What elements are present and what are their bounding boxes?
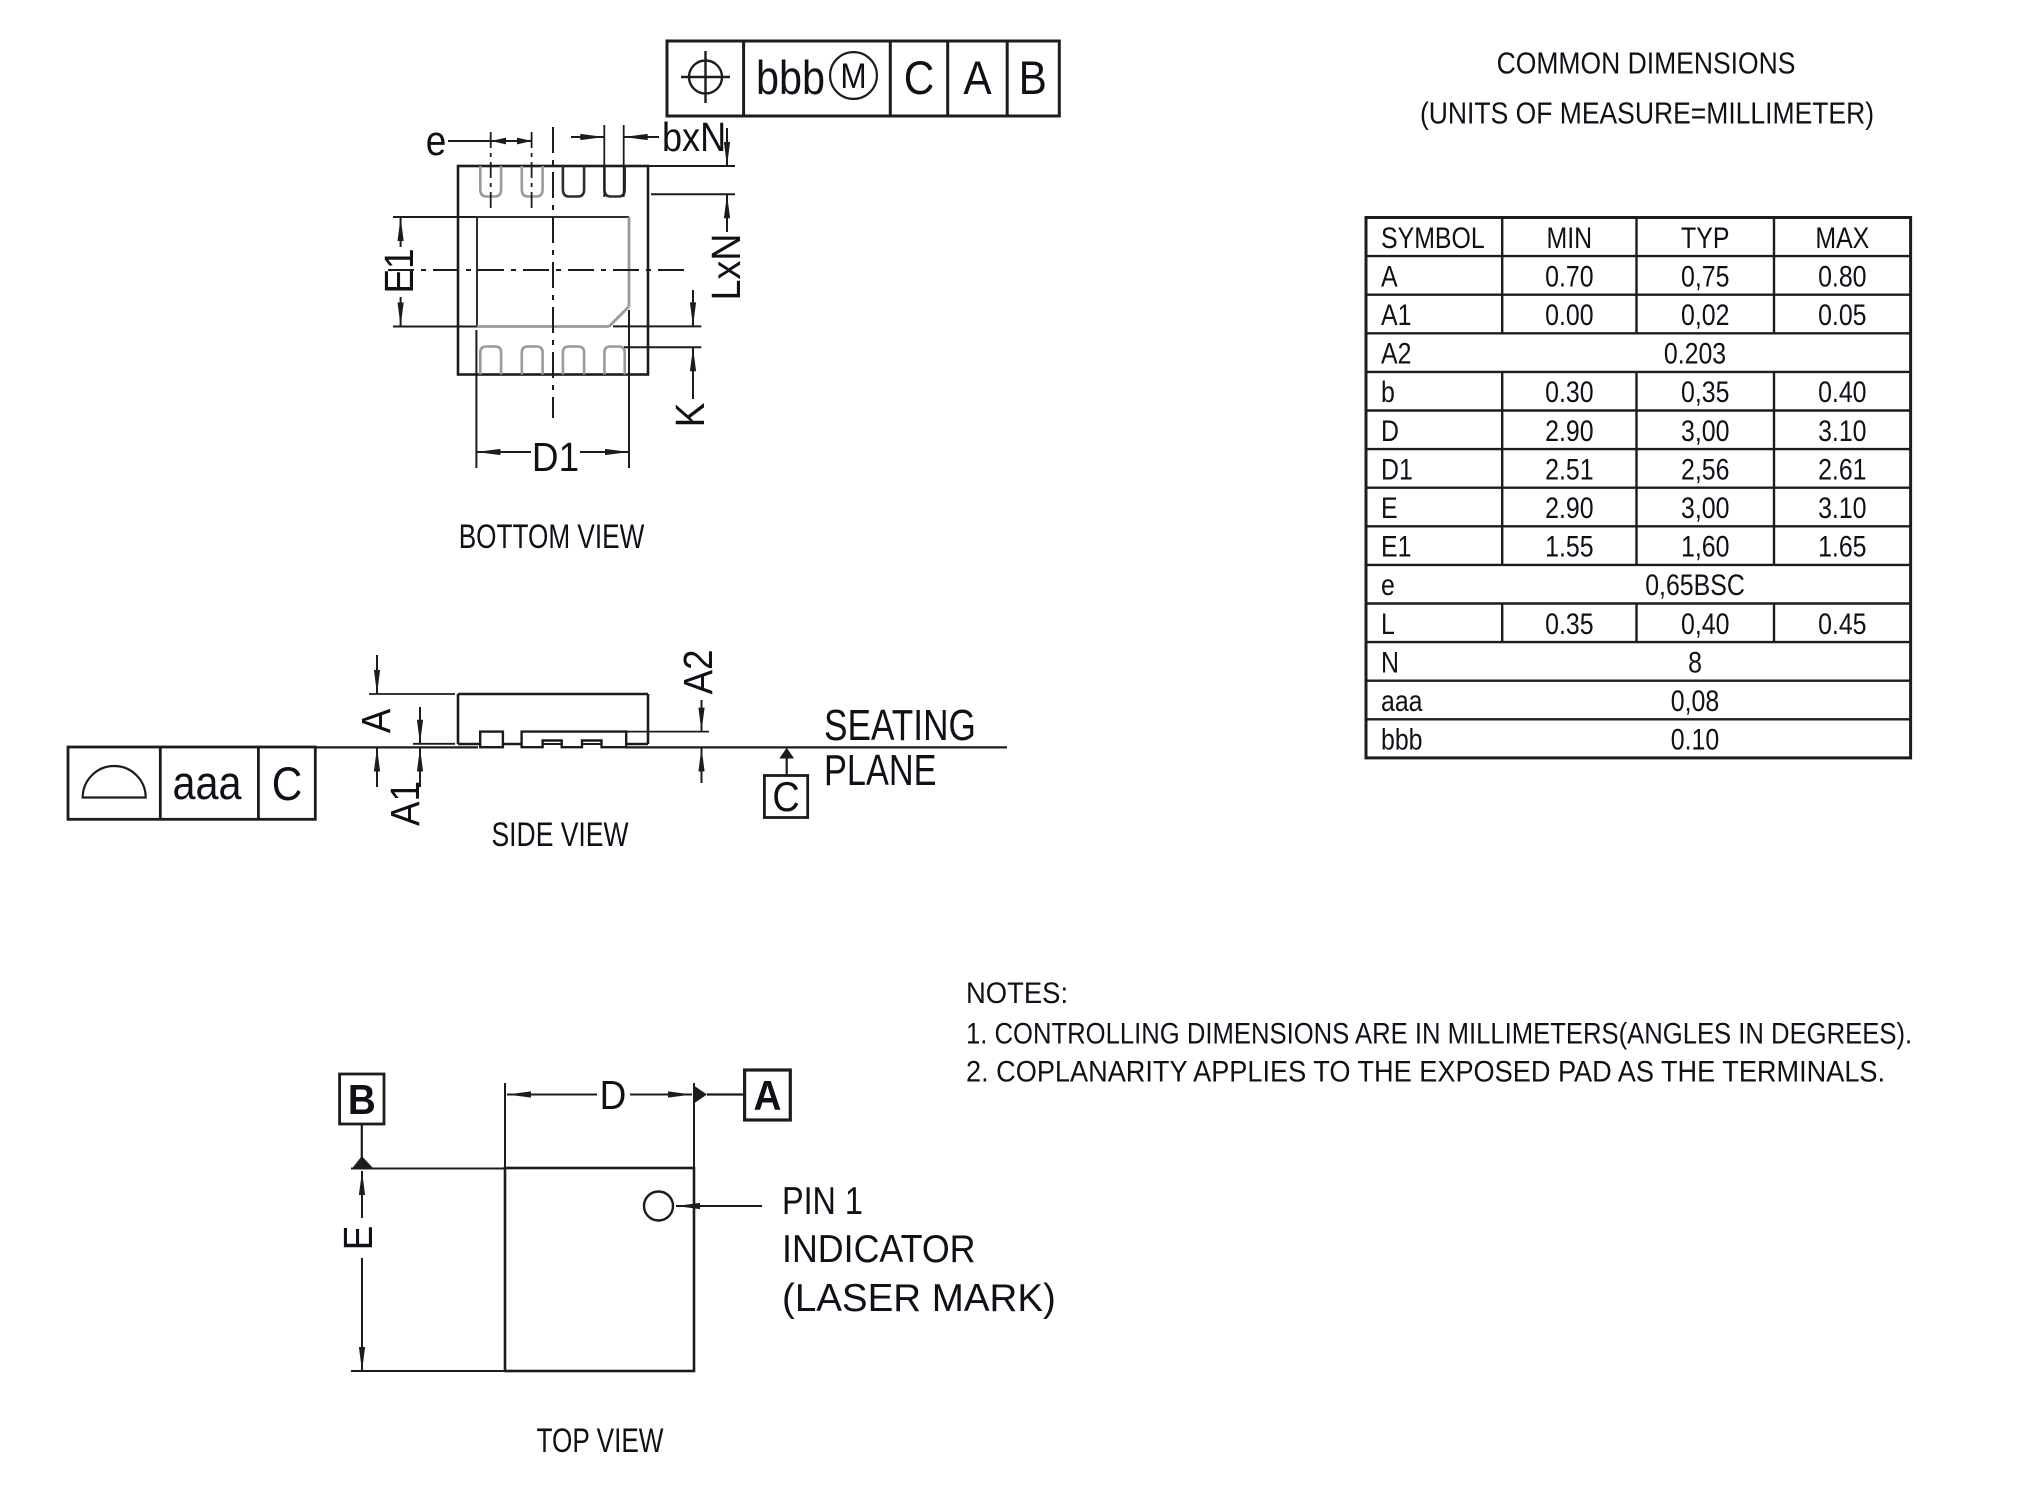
svg-text:COMMON DIMENSIONS: COMMON DIMENSIONS (1497, 47, 1796, 81)
svg-text:BOTTOM VIEW: BOTTOM VIEW (459, 519, 645, 556)
svg-text:1,60: 1,60 (1681, 529, 1729, 563)
svg-text:8: 8 (1688, 645, 1702, 679)
dimension D1 (475, 330, 477, 468)
svg-text:3.10: 3.10 (1818, 491, 1866, 525)
svg-text:1.55: 1.55 (1545, 529, 1593, 563)
profile symbol semicircle (83, 766, 146, 798)
top view package outline (505, 1168, 694, 1371)
bottom view package outline (458, 166, 648, 375)
svg-text:2. COPLANARITY APPLIES TO THE: 2. COPLANARITY APPLIES TO THE EXPOSED PA… (966, 1055, 1885, 1088)
svg-text:0.10: 0.10 (1671, 722, 1719, 756)
svg-text:INDICATOR: INDICATOR (782, 1227, 976, 1270)
dimension A2 (626, 731, 709, 733)
svg-text:LxN: LxN (704, 233, 750, 300)
svg-text:3,00: 3,00 (1681, 414, 1729, 448)
svg-text:b: b (1381, 375, 1395, 409)
dimension A (369, 693, 455, 695)
svg-text:1.65: 1.65 (1818, 529, 1866, 563)
position symbol (689, 61, 722, 94)
bottom view bottom pad 3 (563, 347, 584, 375)
svg-text:TOP VIEW: TOP VIEW (537, 1423, 664, 1460)
svg-text:A2: A2 (676, 649, 721, 694)
svg-text:PIN 1: PIN 1 (782, 1179, 863, 1222)
body bottom line visible through notches (543, 743, 562, 745)
svg-text:0.45: 0.45 (1818, 607, 1866, 641)
svg-text:B: B (348, 1075, 376, 1123)
dimension LxN (726, 128, 728, 166)
svg-text:C: C (904, 53, 935, 105)
svg-text:E1: E1 (1381, 529, 1411, 563)
dimension D (504, 1083, 506, 1168)
svg-text:E1: E1 (377, 248, 422, 293)
svg-text:(UNITS OF MEASURE=MILLIMETER): (UNITS OF MEASURE=MILLIMETER) (1420, 97, 1874, 131)
svg-text:A: A (1381, 259, 1398, 293)
pin 1 indicator circle (644, 1192, 673, 1221)
svg-text:PLANE: PLANE (824, 746, 936, 795)
common dimensions table (1366, 218, 1911, 758)
svg-text:e: e (426, 118, 447, 165)
svg-text:0.35: 0.35 (1545, 607, 1593, 641)
datum B box, leader and triangle (340, 1074, 384, 1124)
svg-text:D: D (600, 1073, 627, 1118)
svg-text:N: N (1381, 645, 1399, 679)
svg-text:A: A (963, 53, 991, 105)
svg-text:aaa: aaa (173, 758, 242, 810)
svg-text:A2: A2 (1381, 336, 1411, 370)
svg-text:0.00: 0.00 (1545, 298, 1593, 332)
dimension E1 (393, 216, 477, 218)
bottom view top pad 2 (522, 166, 543, 197)
svg-text:E: E (1381, 491, 1398, 525)
svg-text:0.70: 0.70 (1545, 259, 1593, 293)
svg-text:3.10: 3.10 (1818, 414, 1866, 448)
svg-text:D1: D1 (532, 435, 579, 480)
svg-text:SIDE VIEW: SIDE VIEW (491, 816, 628, 854)
svg-text:D: D (1381, 414, 1399, 448)
svg-text:M: M (840, 58, 866, 97)
surface profile control frame aaa C (68, 747, 315, 819)
svg-text:L: L (1381, 607, 1395, 641)
vertical centerline (552, 127, 554, 418)
svg-text:0.05: 0.05 (1818, 298, 1866, 332)
svg-text:0,35: 0,35 (1681, 375, 1729, 409)
LxN lower extension line (651, 193, 735, 195)
svg-text:0.80: 0.80 (1818, 259, 1866, 293)
svg-text:bxN: bxN (662, 115, 726, 161)
svg-text:C: C (272, 759, 303, 811)
svg-text:K: K (668, 403, 713, 428)
svg-text:D1: D1 (1381, 452, 1413, 486)
svg-text:C: C (772, 774, 799, 820)
dimension A1 (413, 743, 455, 745)
svg-text:A1: A1 (1381, 298, 1411, 332)
datum A triangle, leader and box (695, 1086, 708, 1103)
svg-text:0.30: 0.30 (1545, 375, 1593, 409)
svg-text:0,40: 0,40 (1681, 607, 1729, 641)
svg-text:SYMBOL: SYMBOL (1381, 221, 1485, 255)
side view pad 1 (480, 732, 503, 748)
svg-text:2.61: 2.61 (1818, 452, 1866, 486)
side view exposed pad bar with notches (522, 732, 627, 748)
bottom view bottom pad 2 (522, 347, 543, 375)
svg-text:MAX: MAX (1815, 221, 1869, 255)
svg-text:0,65BSC: 0,65BSC (1645, 568, 1745, 602)
svg-text:0,75: 0,75 (1681, 259, 1729, 293)
svg-text:2,56: 2,56 (1681, 452, 1729, 486)
svg-text:A1: A1 (383, 781, 428, 826)
svg-text:3,00: 3,00 (1681, 491, 1729, 525)
bottom view bottom pad 4 (604, 347, 624, 375)
svg-text:0,02: 0,02 (1681, 298, 1729, 332)
svg-text:A: A (354, 709, 399, 734)
svg-text:aaa: aaa (1381, 684, 1423, 718)
seating plane line (316, 746, 478, 748)
dimension E (351, 1168, 505, 1170)
svg-text:0.40: 0.40 (1818, 375, 1866, 409)
exposed pad outline (477, 216, 629, 218)
svg-text:E: E (336, 1226, 381, 1251)
svg-text:1. CONTROLLING DIMENSIONS ARE: 1. CONTROLLING DIMENSIONS ARE IN MILLIME… (966, 1017, 1912, 1050)
bottom view top pad 1 (480, 166, 501, 197)
svg-text:A: A (754, 1071, 782, 1119)
svg-text:e: e (1381, 568, 1395, 602)
svg-text:SEATING: SEATING (824, 701, 976, 750)
bottom view top pad 3 (563, 166, 584, 197)
svg-text:2.90: 2.90 (1545, 414, 1593, 448)
side view body outline (458, 693, 648, 696)
modifier M circle (830, 52, 877, 99)
svg-text:0.203: 0.203 (1664, 336, 1726, 370)
svg-text:2.51: 2.51 (1545, 452, 1593, 486)
package top edge extension (648, 165, 735, 167)
dimension bxN (571, 136, 604, 138)
dimension K (613, 325, 701, 327)
bottom view bottom pad 1 (480, 347, 501, 375)
pin 1 leader (676, 1205, 762, 1207)
svg-text:2.90: 2.90 (1545, 491, 1593, 525)
bottom view top pad 4 (604, 166, 624, 197)
svg-text:0,08: 0,08 (1671, 684, 1719, 718)
svg-text:bbb: bbb (1381, 722, 1423, 756)
svg-text:MIN: MIN (1547, 221, 1593, 255)
horizontal centerline (388, 269, 684, 271)
svg-text:B: B (1019, 53, 1047, 105)
feature control frame: position tolerance (667, 41, 1059, 116)
svg-text:TYP: TYP (1681, 221, 1729, 255)
svg-text:bbb: bbb (756, 53, 825, 105)
svg-text:NOTES:: NOTES: (966, 977, 1068, 1010)
datum C triangle and box (779, 748, 794, 759)
svg-text:(LASER MARK): (LASER MARK) (782, 1277, 1056, 1320)
